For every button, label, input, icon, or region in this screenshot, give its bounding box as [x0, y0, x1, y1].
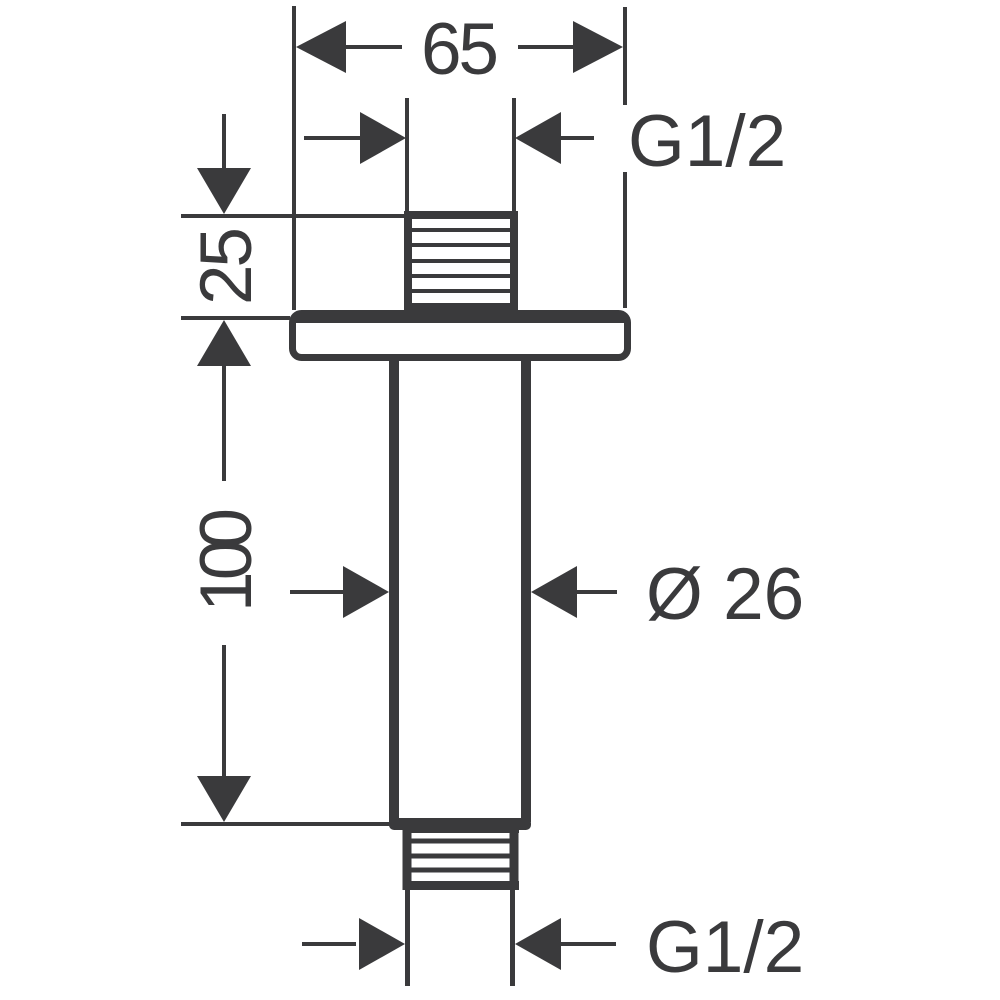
dimension 100: lower dimension line — [222, 645, 226, 780]
part: top thread line 1 — [412, 228, 510, 232]
svg-text:G1/2: G1/2 — [646, 907, 804, 988]
part: bottom threaded outlet top border — [403, 829, 519, 833]
dimension 65: right arrow tail — [518, 45, 576, 49]
dimension G1/2 top: left arrow tail — [304, 136, 366, 140]
dimension D26: right arrow tail — [574, 590, 617, 594]
dimension 25: lower tick line — [181, 316, 290, 320]
part: bottom thread line 1 — [410, 839, 512, 844]
part: pipe right wall — [521, 361, 531, 822]
part: pipe left wall — [389, 361, 399, 822]
part: top thread line 3 — [412, 259, 510, 263]
dimension 25: upper dimension line — [222, 114, 226, 172]
svg-text:65: 65 — [421, 9, 499, 90]
dimension G1/2 bottom: left arrowhead pointing right — [359, 918, 405, 970]
part: flange top inner line — [296, 315, 624, 323]
dimension G1/2 bottom: right arrow tail — [558, 942, 616, 946]
part: tail pipe right wall — [510, 890, 515, 986]
svg-text:100: 100 — [186, 508, 267, 612]
dimension 65: right extension line (upper segment) — [623, 7, 627, 105]
dimension 65: left arrow tail — [344, 45, 402, 49]
part: pipe bottom shoulder — [389, 818, 531, 830]
dimension G1/2 top: left arrowhead pointing right — [360, 112, 406, 164]
svg-text:G1/2: G1/2 — [628, 101, 786, 182]
dimension 100: bottom tick line — [181, 822, 390, 826]
dimension 65: left extension line — [292, 6, 296, 310]
dimension 25: lower arrowhead pointing up — [197, 320, 251, 366]
part: bottom thread line 2 — [410, 854, 512, 859]
part: ceiling escutcheon flange — [293, 314, 628, 358]
part: top threaded inlet outline — [408, 215, 514, 307]
part: bottom threaded outlet right border — [510, 829, 519, 890]
part: bottom threaded outlet bottom border — [403, 881, 519, 890]
dimension 25: upper tick line — [181, 214, 407, 218]
dimension 65: right arrowhead — [573, 21, 623, 73]
dimension 65: left arrowhead — [296, 21, 346, 73]
dimension G1/2 top: right arrow tail — [558, 136, 594, 140]
part: top thread line 4 — [412, 274, 510, 278]
dimension 25: upper arrowhead pointing down — [197, 168, 251, 214]
dimension G1/2 bottom: left arrow tail — [302, 942, 356, 946]
dimension 100: upper dimension line — [222, 364, 226, 481]
svg-text:25: 25 — [186, 227, 267, 305]
part: top thread line 5 — [412, 289, 510, 293]
dimension D26: left arrowhead pointing right — [343, 566, 389, 618]
dimension 100: lower arrowhead pointing down — [197, 776, 251, 822]
part: bottom thread line 3 — [410, 868, 512, 873]
dimension D26: left arrow tail — [290, 590, 348, 594]
dimension G1/2 bottom: right arrowhead pointing left — [515, 918, 561, 970]
dimension G1/2 top: left extension line — [405, 98, 409, 212]
svg-text:Ø 26: Ø 26 — [646, 554, 804, 635]
part: bottom threaded outlet left border — [403, 829, 412, 890]
part: top thread line 2 — [412, 243, 510, 247]
part: tail pipe left wall — [405, 890, 410, 986]
dimension 65: right extension line (lower segment) — [623, 172, 627, 308]
dimension D26: right arrowhead pointing left — [531, 566, 577, 618]
dimension G1/2 top: right arrowhead pointing left — [515, 112, 561, 164]
dimension G1/2 top: right extension line — [512, 98, 516, 212]
